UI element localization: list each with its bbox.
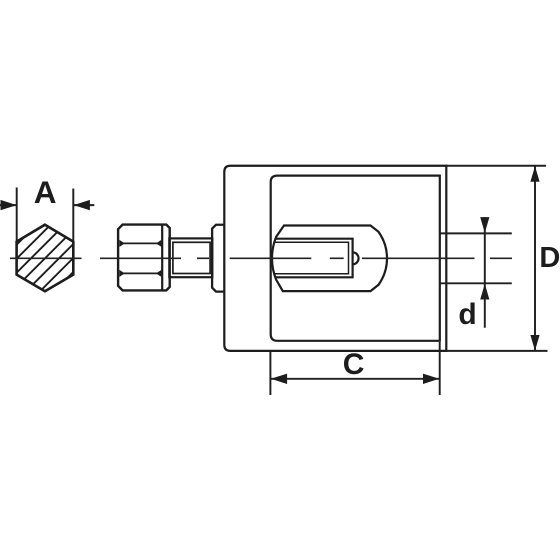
svg-text:d: d bbox=[458, 298, 476, 331]
svg-text:C: C bbox=[343, 348, 365, 381]
svg-text:A: A bbox=[34, 174, 57, 210]
svg-text:D: D bbox=[539, 242, 560, 274]
